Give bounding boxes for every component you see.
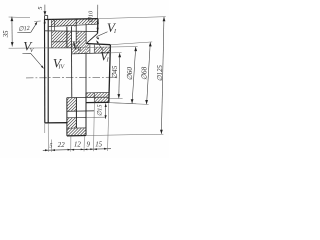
hub window vertical bbox=[75, 98, 77, 129]
hub section edge bbox=[52, 41, 67, 43]
ext 107.5 bottom bbox=[108, 103, 109, 151]
rim lower inner line bbox=[67, 127, 86, 129]
hatch hub ring right top bbox=[77, 47, 119, 53]
bore ⌀60 upper wall bbox=[48, 47, 71, 49]
hatch hub step small bottom bbox=[71, 93, 103, 98]
disc hole lower wall bbox=[67, 116, 86, 118]
hatch disc lower block bbox=[41, 118, 90, 128]
rim lip (5 high) top-left bbox=[45, 16, 48, 20]
dim 35 arrow top bbox=[11, 17, 14, 21]
chain arrow final right bbox=[104, 148, 107, 150]
⌀12 leader underline bbox=[17, 31, 31, 33]
rim inner step line bbox=[45, 30, 98, 33]
label 9 bbox=[86, 142, 90, 149]
label 22 bbox=[58, 142, 65, 149]
mark VV leader arrow bbox=[41, 66, 44, 69]
hatch hub upper block right bbox=[27, 32, 112, 54]
⌀10 dim line bbox=[97, 5, 99, 32]
ext 51.6 bottom bbox=[51, 140, 53, 152]
⌀12 hole edge line bbox=[34, 20, 41, 22]
svg-text:∅10: ∅10 bbox=[87, 10, 94, 23]
rim-hub boundary vertical bbox=[75, 19, 77, 44]
⌀15 arrow upper bbox=[105, 103, 107, 107]
⌀12 leader arrow bbox=[35, 22, 38, 26]
label 12 bbox=[74, 142, 81, 149]
hatch hub step small bbox=[62, 44, 102, 54]
hatch hub ring right bottom bbox=[71, 93, 122, 102]
rim groove edge b bbox=[53, 19, 55, 30]
rim right face bbox=[97, 19, 100, 34]
svg-text:∅68: ∅68 bbox=[141, 66, 149, 80]
dim ⌀68 bbox=[141, 42, 152, 104]
⌀15 arrow lower bbox=[105, 115, 107, 119]
⌀125 ext top bbox=[98, 17, 166, 19]
mark VII leader bbox=[97, 32, 108, 37]
chain arrows at 93.6 bbox=[90, 148, 97, 150]
hub step vertical top bbox=[93, 45, 95, 54]
bore step wall vertical bbox=[70, 27, 72, 98]
⌀10 arrow lower bbox=[97, 28, 99, 32]
ext 48.3 bottom bbox=[47, 123, 49, 152]
groove edge top bbox=[89, 44, 91, 53]
hatch hub upper block bbox=[13, 31, 93, 48]
dim 35 arrow bottom bbox=[11, 42, 14, 46]
bore step wall vertical right bbox=[85, 54, 87, 98]
rim left face bottom bbox=[66, 98, 68, 136]
⌀68 ext bottom bbox=[109, 103, 149, 105]
dim 35 line bbox=[11, 17, 13, 47]
ext 70.8 bottom bbox=[70, 136, 72, 151]
hatch rim bottom block bbox=[47, 128, 97, 136]
mark VIV (bore finish) bbox=[53, 56, 66, 71]
hatch rim band left bbox=[33, 20, 88, 27]
⌀68 ext top bbox=[111, 42, 153, 45]
mark VV (disc face finish) bbox=[23, 38, 35, 54]
mark VI leader bbox=[97, 41, 103, 51]
hatch mid left bbox=[47, 44, 90, 54]
svg-text:35: 35 bbox=[3, 30, 10, 38]
svg-text:12: 12 bbox=[74, 142, 81, 149]
⌀45 ext bottom bbox=[110, 98, 123, 100]
dim 5 label bbox=[37, 6, 44, 10]
hatch hub lower block bbox=[35, 98, 93, 111]
mark VIII (mid face finish) bbox=[72, 38, 83, 53]
disc right face bbox=[47, 19, 49, 122]
dim ⌀45 bbox=[111, 53, 121, 98]
svg-text:∅15: ∅15 bbox=[96, 105, 103, 117]
hub right-step vertical bbox=[85, 24, 87, 43]
disc bottom face bbox=[45, 122, 67, 124]
svg-text:9: 9 bbox=[86, 142, 90, 149]
mark VV leader bbox=[31, 53, 44, 68]
label 5 bottom bbox=[49, 142, 52, 149]
ext 93.6 bottom bbox=[93, 103, 96, 151]
mark VI leader arrow bbox=[96, 40, 99, 43]
ext disc left stub bbox=[44, 123, 46, 133]
⌀10 arrow upper bbox=[97, 20, 99, 24]
hatch rim band right bbox=[61, 19, 105, 24]
dim 35 ext bottom (to ⌀60 line) bbox=[9, 47, 48, 49]
mark VII leader arrow bbox=[96, 37, 99, 39]
ext of hole wall bbox=[86, 116, 106, 118]
rim top face (⌀125 top) bbox=[44, 18, 98, 21]
bottom dim line bbox=[43, 149, 111, 151]
hub ⌀60 bottom face bbox=[86, 101, 109, 103]
hub-disc lower line bbox=[67, 110, 94, 113]
dim ⌀60 bbox=[126, 47, 137, 104]
⌀15 label bbox=[96, 105, 103, 117]
hub bottom step vertical bbox=[93, 93, 95, 103]
⌀12 leader bbox=[31, 23, 37, 33]
label 15 bbox=[95, 141, 102, 148]
rim bottom face (⌀125 bottom) bbox=[67, 135, 86, 137]
svg-text:22: 22 bbox=[58, 142, 65, 149]
⌀45 ext top bbox=[110, 52, 122, 54]
chain arrows at 70.9 bbox=[68, 149, 75, 151]
bore lower wall bbox=[67, 96, 109, 98]
dim ⌀125 bbox=[157, 17, 166, 134]
dim 35 label bbox=[3, 30, 10, 38]
chain arrows at 84.0 bbox=[81, 149, 88, 151]
svg-text:∅60: ∅60 bbox=[126, 67, 134, 81]
dim 5 (rim lip height) line bbox=[44, 5, 46, 24]
mark VV underline bbox=[22, 52, 30, 54]
hub bore left wall vertical bbox=[66, 27, 68, 48]
⌀12 label bbox=[18, 25, 30, 33]
svg-text:∅125: ∅125 bbox=[157, 64, 164, 81]
svg-text:∅12: ∅12 bbox=[18, 25, 30, 33]
dim 5 ext line bbox=[9, 16, 30, 19]
chain arrows seg5 outside bbox=[45, 149, 55, 151]
rim right face bottom bbox=[85, 93, 87, 136]
⌀15 dim line bbox=[105, 103, 107, 118]
ext 84.0 bottom bbox=[83, 136, 85, 151]
⌀10 hole upper wall / rim inner line bbox=[48, 24, 98, 27]
svg-text:5: 5 bbox=[49, 142, 52, 149]
⌀125 ext bottom bbox=[86, 134, 163, 135]
⌀10 hole bottom bbox=[71, 43, 76, 45]
⌀60 ext top bbox=[48, 47, 138, 48]
hub lower line a bbox=[86, 92, 109, 94]
part right face bbox=[109, 45, 111, 103]
rim groove edge a bbox=[50, 19, 52, 47]
bore ⌀45 upper wall bbox=[71, 53, 109, 54]
svg-text:15: 15 bbox=[95, 141, 102, 148]
dim 5 arrowheads bbox=[44, 11, 47, 23]
centerline (part axis) bbox=[26, 76, 119, 79]
hub ⌀68 top face bbox=[86, 44, 110, 45]
svg-text:∅45: ∅45 bbox=[111, 65, 119, 79]
rim chamfer bbox=[87, 34, 98, 43]
mark VI (right bore finish) bbox=[100, 49, 110, 64]
disc left face bbox=[44, 19, 46, 122]
⌀10 label bbox=[87, 10, 94, 23]
⌀60 ext bottom bbox=[109, 103, 136, 104]
mark VII (hub face finish) bbox=[107, 20, 117, 35]
